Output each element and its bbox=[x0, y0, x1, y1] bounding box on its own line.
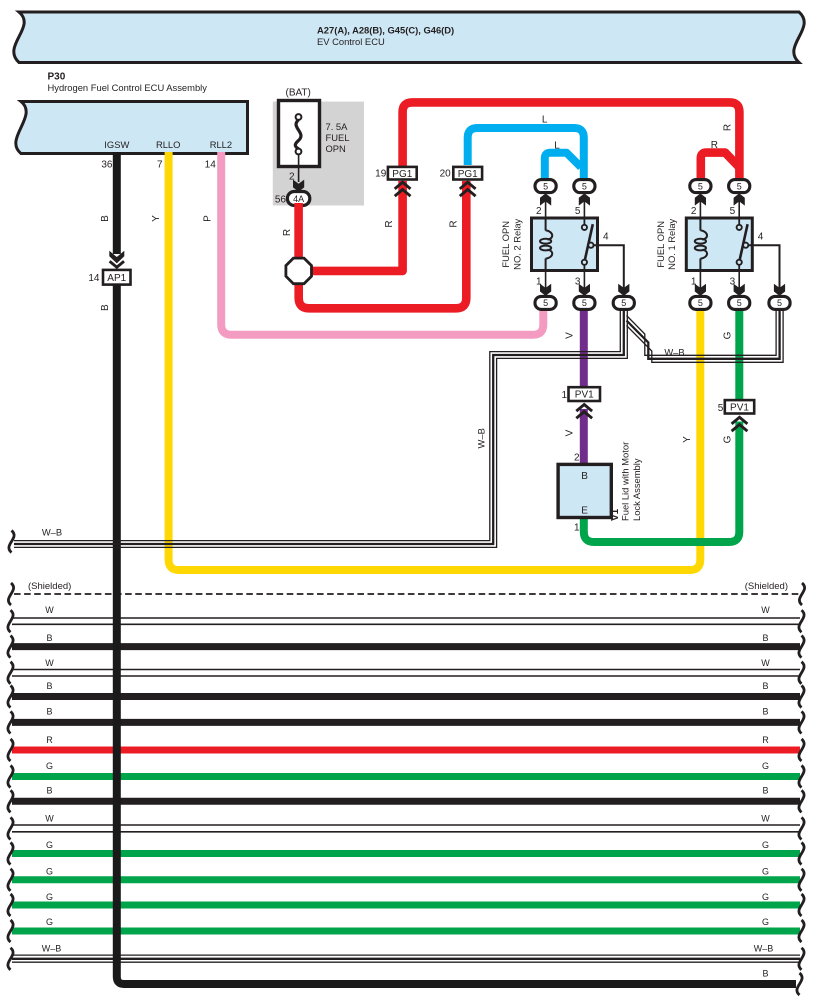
pin number 7 bbox=[157, 159, 163, 170]
shield wire 9 labels bbox=[45, 813, 770, 823]
svg-text:EV Control ECU: EV Control ECU bbox=[317, 36, 385, 47]
battery gray block bbox=[273, 102, 364, 206]
relay NO. 1 pin 3 lead bbox=[734, 271, 745, 296]
wire label B (below AP1) bbox=[100, 304, 111, 311]
(Shielded) label left bbox=[28, 581, 71, 592]
connector PG1 pin 20 bbox=[453, 167, 482, 180]
wire label G (lower) bbox=[722, 435, 733, 443]
svg-text:5: 5 bbox=[621, 298, 626, 308]
svg-text:RLLO: RLLO bbox=[156, 139, 181, 150]
relay NO. 2 switch bbox=[582, 218, 594, 271]
svg-text:(BAT): (BAT) bbox=[286, 88, 311, 99]
relay NO. 1 pin 5 label bbox=[730, 206, 736, 217]
relay NO. 1 pin 4 wire bbox=[748, 245, 780, 289]
svg-text:B: B bbox=[581, 471, 588, 482]
svg-text:5: 5 bbox=[575, 206, 581, 217]
shield wire 4 labels bbox=[46, 681, 768, 691]
wire label P bbox=[202, 215, 213, 222]
pin number 5 (PV1) bbox=[718, 403, 724, 414]
svg-text:G: G bbox=[722, 435, 733, 443]
relay NO. 2 pin 1 lead bbox=[540, 271, 551, 296]
svg-text:PV1: PV1 bbox=[575, 390, 594, 401]
svg-text:B: B bbox=[100, 215, 111, 222]
break symbol W-B left bbox=[9, 531, 14, 553]
svg-text:B: B bbox=[46, 785, 52, 795]
fuel lid with motor lock assembly box bbox=[558, 464, 611, 517]
wire V (violet) relay pin 3 to PV1 bbox=[580, 306, 588, 399]
svg-text:14: 14 bbox=[205, 159, 217, 170]
shield wire 7 (G) bbox=[8, 766, 804, 788]
svg-text:(Shielded): (Shielded) bbox=[28, 581, 71, 592]
EV Control ECU banner bbox=[14, 12, 804, 63]
svg-text:G: G bbox=[46, 917, 53, 927]
svg-text:V: V bbox=[565, 429, 576, 436]
wire label W-B (vertical) bbox=[476, 428, 487, 448]
relay NO. 2 pin 2 label bbox=[536, 206, 542, 217]
svg-text:4: 4 bbox=[603, 231, 609, 242]
shield wire 8 (B) bbox=[8, 790, 804, 812]
svg-text:56: 56 bbox=[275, 195, 287, 206]
(Shielded) label right bbox=[745, 581, 788, 592]
svg-text:5: 5 bbox=[543, 298, 548, 308]
wire label R (PG1 19 stub) bbox=[384, 220, 395, 227]
svg-text:B: B bbox=[46, 706, 52, 716]
svg-text:W: W bbox=[761, 813, 770, 823]
(BAT) label bbox=[286, 88, 311, 99]
svg-text:R: R bbox=[711, 140, 718, 151]
relay NO. 2 pin 5 terminal 5 bbox=[574, 180, 595, 193]
relay NO. 1 switch bbox=[737, 218, 749, 271]
relay NO. 1 pin 2 lead bbox=[695, 193, 706, 218]
svg-text:W: W bbox=[761, 605, 770, 615]
svg-text:G: G bbox=[46, 840, 53, 850]
wire R junction to PG1 20 bbox=[299, 181, 467, 308]
shield wire 12 labels bbox=[46, 892, 769, 902]
svg-text:R: R bbox=[282, 229, 293, 236]
relay NO. 2 pin 3 label bbox=[575, 277, 581, 288]
connector arrow PG1 20 bbox=[460, 182, 476, 196]
relay NO. 1 pin 2 terminal 5 bbox=[690, 180, 711, 193]
svg-text:R: R bbox=[46, 735, 53, 745]
wire P (pink) RLL2 to relay pin 1 bbox=[221, 152, 543, 335]
svg-text:NO. 1 Relay: NO. 1 Relay bbox=[666, 218, 677, 269]
relay NO. 2 pin 3 lead bbox=[579, 271, 590, 296]
wire label W-B (middle horizontal) bbox=[664, 347, 684, 358]
shield wire 2 (B) bbox=[8, 636, 804, 658]
svg-text:W–B: W–B bbox=[476, 428, 487, 448]
wire label L (relay hook) bbox=[554, 141, 560, 152]
fuel lid pin E label bbox=[581, 506, 588, 517]
relay NO. 1 pin 3 terminal 5 bbox=[729, 296, 750, 309]
fuse rating label bbox=[326, 121, 350, 154]
connector 4A oval bbox=[287, 192, 309, 206]
shield wire 9 (W) bbox=[8, 817, 804, 839]
relay NO. 2 pin 4 label bbox=[603, 231, 609, 242]
svg-text:5: 5 bbox=[730, 206, 736, 217]
svg-text:OPN: OPN bbox=[326, 143, 346, 154]
relay NO. 2 pin 2 terminal 5 bbox=[535, 180, 556, 193]
wire V (violet) PV1 to fuel lid B bbox=[580, 409, 588, 468]
svg-text:W–B: W–B bbox=[664, 347, 684, 358]
shield wire 5 (B) bbox=[8, 711, 804, 733]
relay NO. 2 pin 4 arrow bbox=[618, 284, 629, 296]
shield wire 10 (G) bbox=[8, 843, 804, 865]
svg-text:W: W bbox=[45, 658, 54, 668]
shield wire 13 labels bbox=[46, 917, 769, 927]
svg-text:FUEL OPN: FUEL OPN bbox=[655, 221, 666, 268]
svg-text:2: 2 bbox=[691, 206, 697, 217]
wire label R (4A stub) bbox=[282, 229, 293, 236]
shield wire 14 labels bbox=[42, 944, 774, 954]
shield wire 11 (G) bbox=[8, 869, 804, 891]
svg-text:B: B bbox=[762, 681, 768, 691]
shield wire 5 labels bbox=[46, 706, 768, 716]
relay FUEL OPN NO. 2 body bbox=[532, 218, 598, 271]
wire R hook relay NO.1 pin 2 bbox=[701, 153, 740, 181]
svg-text:P30: P30 bbox=[48, 72, 66, 83]
wire B (black) AP1 to bottom shield bbox=[117, 285, 796, 984]
svg-text:W: W bbox=[761, 658, 770, 668]
svg-text:R: R bbox=[762, 735, 769, 745]
svg-text:G: G bbox=[46, 761, 53, 771]
pin number 20 bbox=[440, 169, 452, 180]
wire label W-B (left horizontal) bbox=[42, 526, 62, 537]
relay NO. 2 name label bbox=[500, 218, 522, 269]
svg-text:B: B bbox=[46, 633, 52, 643]
relay NO. 1 pin 1 label bbox=[691, 277, 697, 288]
svg-text:5: 5 bbox=[582, 181, 587, 191]
relay NO. 2 pin 1 label bbox=[536, 277, 542, 288]
svg-text:W: W bbox=[45, 605, 54, 615]
wire label G (upper) bbox=[722, 331, 733, 339]
svg-text:5: 5 bbox=[698, 181, 703, 191]
connector PV1 pin 5 bbox=[725, 400, 754, 413]
svg-text:B: B bbox=[46, 681, 52, 691]
wire R fuse 4A to junction bbox=[294, 203, 303, 271]
svg-text:4: 4 bbox=[758, 231, 764, 242]
shield wire 3 labels bbox=[45, 658, 770, 668]
P30 pin names IGSW RLLO RLL2 bbox=[104, 139, 232, 150]
fuel lid name label bbox=[610, 442, 642, 521]
svg-text:W: W bbox=[45, 813, 54, 823]
svg-text:Lock Assembly: Lock Assembly bbox=[631, 458, 642, 521]
svg-text:PV1: PV1 bbox=[730, 402, 749, 413]
svg-text:B: B bbox=[762, 706, 768, 716]
svg-text:36: 36 bbox=[101, 159, 113, 170]
svg-text:R: R bbox=[384, 220, 395, 227]
svg-text:5: 5 bbox=[777, 298, 782, 308]
relay NO. 1 pin 4 label bbox=[758, 231, 764, 242]
pin number 2 (fuel lid B) bbox=[574, 453, 580, 464]
svg-text:7. 5A: 7. 5A bbox=[326, 121, 349, 132]
wire W-B net relay NO.2 pin 4 to shield bbox=[14, 308, 627, 547]
svg-text:G: G bbox=[762, 892, 769, 902]
pin number 36 bbox=[101, 159, 113, 170]
svg-text:B: B bbox=[762, 969, 768, 979]
shield wire 7 labels bbox=[46, 761, 769, 771]
wire R PG1 19 to EV Control ECU bbox=[403, 102, 740, 181]
svg-text:5: 5 bbox=[698, 298, 703, 308]
svg-text:G: G bbox=[762, 761, 769, 771]
relay NO. 2 pin 5 lead bbox=[579, 193, 590, 218]
wire label Y (upper) bbox=[151, 215, 162, 222]
svg-text:5: 5 bbox=[543, 181, 548, 191]
svg-text:Fuel Lid with Motor: Fuel Lid with Motor bbox=[620, 442, 631, 521]
relay NO. 1 pin 4 terminal 5 bbox=[769, 296, 790, 309]
wire R junction to PG1 19 bbox=[299, 181, 403, 271]
wire B (black) IGSW trunk bbox=[109, 152, 124, 267]
wire W-B branch to relay NO.1 pin 4 bbox=[627, 306, 784, 362]
P30 ECU title bbox=[48, 72, 208, 94]
svg-text:G: G bbox=[722, 331, 733, 339]
shield wire 14 (W–B) bbox=[8, 948, 804, 970]
shield wire 6 labels bbox=[46, 735, 769, 745]
svg-text:IGSW: IGSW bbox=[104, 139, 129, 150]
relay NO. 2 pin 5 label bbox=[575, 206, 581, 217]
wire L (blue) PG1 20 to relay NO.2 pin 5 bbox=[468, 128, 584, 181]
svg-text:PG1: PG1 bbox=[458, 169, 478, 180]
svg-text:A27(A), A28(B), G45(C), G46(D): A27(A), A28(B), G45(C), G46(D) bbox=[317, 25, 454, 36]
svg-text:Hydrogen Fuel Control ECU Asse: Hydrogen Fuel Control ECU Assembly bbox=[48, 82, 208, 93]
svg-text:1: 1 bbox=[536, 277, 542, 288]
relay NO. 2 pin 3 terminal 5 bbox=[574, 296, 595, 309]
relay NO. 2 coil bbox=[540, 218, 552, 271]
wire label L (top) bbox=[542, 115, 548, 126]
fuse FUEL OPN symbol bbox=[295, 114, 301, 154]
svg-text:Y: Y bbox=[682, 436, 693, 443]
svg-text:G: G bbox=[762, 867, 769, 877]
fuse lead arrow bbox=[293, 180, 304, 192]
shield wire 6 (R) bbox=[8, 739, 804, 761]
junction node (octagon) bbox=[286, 258, 312, 284]
svg-text:B: B bbox=[762, 633, 768, 643]
shield wire 12 (G) bbox=[8, 894, 804, 916]
svg-text:1: 1 bbox=[691, 277, 697, 288]
svg-text:4A: 4A bbox=[293, 194, 304, 204]
relay NO. 2 pin 1 terminal 5 bbox=[535, 296, 556, 309]
pin number 56 bbox=[275, 195, 287, 206]
shield dashed boundary bbox=[14, 593, 800, 595]
pin number 14 (AP1) bbox=[88, 273, 100, 284]
svg-text:1: 1 bbox=[561, 390, 567, 401]
svg-text:FUEL: FUEL bbox=[326, 132, 350, 143]
connector arrow PV1 5 bbox=[732, 417, 748, 431]
svg-text:7: 7 bbox=[157, 159, 163, 170]
svg-text:Y: Y bbox=[151, 215, 162, 222]
connector arrow PG1 19 bbox=[395, 182, 411, 196]
shield break left bbox=[8, 583, 13, 605]
wire label R (relay hook) bbox=[711, 140, 718, 151]
pin number 19 bbox=[375, 169, 387, 180]
svg-text:PG1: PG1 bbox=[392, 169, 412, 180]
shield wire 4 (B) bbox=[8, 686, 804, 708]
svg-text:5: 5 bbox=[582, 298, 587, 308]
pin number 14 (RLL2) bbox=[205, 159, 217, 170]
EV Control ECU banner labels bbox=[317, 25, 454, 47]
wire label Y (lower) bbox=[682, 436, 693, 443]
svg-text:(Shielded): (Shielded) bbox=[745, 581, 788, 592]
svg-text:20: 20 bbox=[440, 169, 452, 180]
svg-text:FUEL OPN: FUEL OPN bbox=[500, 221, 511, 268]
pin number 1 (PV1) bbox=[561, 390, 567, 401]
svg-text:P: P bbox=[202, 215, 213, 222]
relay NO. 1 pin 1 terminal 5 bbox=[690, 296, 711, 309]
fuse pin number 2 bbox=[289, 172, 295, 183]
wire label R (top right vertical) bbox=[723, 124, 734, 131]
relay NO. 2 pin 4 terminal 5 bbox=[613, 296, 634, 309]
shield wire 1 (W) bbox=[8, 610, 804, 632]
fuse pin lead bbox=[298, 154, 300, 182]
relay FUEL OPN NO. 1 body bbox=[686, 218, 752, 271]
svg-text:1: 1 bbox=[574, 523, 580, 534]
svg-text:R: R bbox=[723, 124, 734, 131]
shield wire 1 labels bbox=[45, 605, 770, 615]
wire G (green) relay NO.1 pin 3 to PV1 bbox=[735, 306, 743, 412]
relay NO. 1 pin 1 lead bbox=[695, 271, 706, 296]
svg-text:E: E bbox=[581, 506, 588, 517]
svg-text:5: 5 bbox=[737, 298, 742, 308]
relay NO. 1 name label bbox=[655, 218, 677, 269]
shield break right bbox=[799, 583, 804, 605]
svg-text:AP1: AP1 bbox=[107, 273, 126, 284]
shield wire 2 labels bbox=[46, 633, 768, 643]
svg-text:G: G bbox=[762, 917, 769, 927]
svg-text:2: 2 bbox=[574, 453, 580, 464]
shield wire 15 (B) labels bbox=[762, 969, 768, 979]
wire label R (PG1 20 stub) bbox=[449, 220, 460, 227]
shield wire 3 (W) bbox=[8, 662, 804, 684]
svg-text:3: 3 bbox=[730, 277, 736, 288]
svg-text:B: B bbox=[762, 785, 768, 795]
fuel lid pin B label bbox=[581, 471, 588, 482]
shield wire 11 labels bbox=[46, 867, 769, 877]
svg-text:14: 14 bbox=[88, 273, 100, 284]
svg-text:19: 19 bbox=[375, 169, 387, 180]
relay NO. 1 pin 2 label bbox=[691, 206, 697, 217]
fuse box bbox=[279, 101, 320, 167]
svg-text:B: B bbox=[100, 304, 111, 311]
wire label B (upper) bbox=[100, 215, 111, 222]
connector arrow PV1 1 bbox=[576, 405, 592, 419]
svg-text:3: 3 bbox=[575, 277, 581, 288]
relay NO. 2 pin 2 lead bbox=[540, 193, 551, 218]
relay NO. 1 pin 3 label bbox=[730, 277, 736, 288]
svg-text:R: R bbox=[449, 220, 460, 227]
relay NO. 1 pin 5 lead bbox=[734, 193, 745, 218]
svg-text:RLL2: RLL2 bbox=[210, 139, 232, 150]
svg-text:5: 5 bbox=[737, 181, 742, 191]
svg-text:W–B: W–B bbox=[42, 944, 62, 954]
wire label V (upper) bbox=[565, 332, 576, 339]
shield wire 15 break right bbox=[797, 973, 802, 995]
connector PG1 pin 19 bbox=[388, 167, 417, 180]
svg-text:G: G bbox=[762, 840, 769, 850]
svg-text:G: G bbox=[46, 867, 53, 877]
wire L hook relay NO.2 pin 2 bbox=[545, 153, 581, 181]
shield wire 10 labels bbox=[46, 840, 769, 850]
svg-text:W–B: W–B bbox=[754, 944, 774, 954]
svg-text:5: 5 bbox=[718, 403, 724, 414]
connector AP1 bbox=[103, 270, 131, 285]
wire Y (yellow) RLLO to relay NO.1 pin 1 bbox=[169, 152, 701, 570]
shield wire 8 labels bbox=[46, 785, 768, 795]
svg-text:NO. 2 Relay: NO. 2 Relay bbox=[511, 218, 522, 269]
svg-text:G: G bbox=[46, 892, 53, 902]
svg-text:L: L bbox=[554, 141, 560, 152]
connector PV1 pin 1 bbox=[569, 387, 601, 401]
svg-text:W–B: W–B bbox=[42, 526, 62, 537]
svg-text:V: V bbox=[565, 332, 576, 339]
wire label V (lower) bbox=[565, 429, 576, 436]
pin number 1 (fuel lid E) bbox=[574, 523, 580, 534]
relay NO. 1 coil bbox=[695, 218, 707, 271]
relay NO. 2 pin 4 wire bbox=[593, 245, 624, 289]
P30 ECU box bbox=[16, 102, 248, 154]
relay NO. 1 pin 5 terminal 5 bbox=[729, 180, 750, 193]
svg-text:2: 2 bbox=[536, 206, 542, 217]
svg-text:L: L bbox=[542, 115, 548, 126]
wire G (green) PV1 to fuel lid E bbox=[584, 422, 740, 543]
shield wire 13 (G) bbox=[8, 920, 804, 942]
relay NO. 1 pin 4 arrow bbox=[774, 284, 785, 296]
